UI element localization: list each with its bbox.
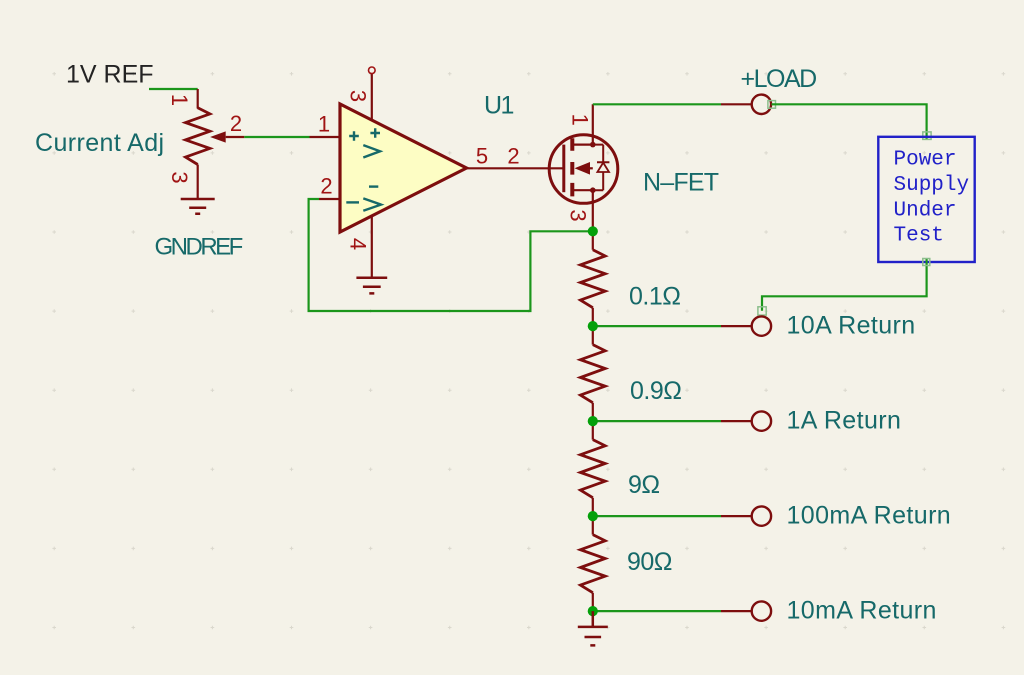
resistor R3 9Ω leads bbox=[592, 421, 594, 516]
FET substrate arrow bbox=[575, 162, 591, 175]
svg-text:Current Adj: Current Adj bbox=[35, 129, 164, 157]
svg-text:U1: U1 bbox=[484, 91, 514, 119]
potentiometer RV1 pin 3 lead bbox=[197, 165, 199, 199]
svg-text:GNDREF: GNDREF bbox=[155, 234, 243, 261]
FET gate bar bbox=[562, 145, 565, 193]
svg-text:Under: Under bbox=[894, 199, 957, 222]
wire tap to J2 bbox=[593, 325, 721, 327]
svg-text:Power: Power bbox=[894, 148, 957, 171]
connector J3 1A Return bbox=[721, 420, 752, 422]
wire tap to J4 bbox=[593, 515, 721, 517]
svg-text:3: 3 bbox=[565, 209, 590, 221]
ground GNDREF symbol bbox=[181, 199, 215, 214]
grid dots (decorative) bbox=[52, 72, 1005, 629]
op-amp V+ pin name (rotated) bbox=[370, 128, 380, 138]
sheet pin marker box top bbox=[923, 132, 931, 140]
potentiometer RV1 body bbox=[186, 108, 210, 165]
dangling wire marker above 10A Return bbox=[758, 307, 766, 315]
junction nodes on ladder bbox=[588, 226, 598, 236]
svg-text:Test: Test bbox=[894, 225, 944, 248]
op-amp pin 1 (non-inverting input) bbox=[310, 136, 341, 138]
connector J2 10A Return bbox=[721, 325, 752, 327]
op-amp U1 body bbox=[340, 104, 467, 232]
svg-text:5: 5 bbox=[476, 144, 488, 169]
svg-text:2: 2 bbox=[320, 174, 332, 199]
FET source connection bbox=[574, 190, 593, 231]
svg-text:2: 2 bbox=[230, 111, 242, 136]
potentiometer RV1 pin 1 lead bbox=[197, 89, 199, 109]
op-amp input - marker bbox=[346, 201, 359, 203]
ground symbol below op-amp bbox=[356, 278, 387, 294]
svg-text:N–FET: N–FET bbox=[643, 169, 719, 197]
svg-text:4: 4 bbox=[345, 238, 370, 250]
connector J5 10mA Return bbox=[721, 610, 752, 612]
ground at ladder bottom bbox=[578, 611, 608, 645]
connector J +LOAD pin bbox=[721, 103, 752, 105]
power supply under test box bbox=[878, 137, 974, 262]
svg-text:1: 1 bbox=[318, 112, 330, 137]
op-amp pin 4 (V-) bbox=[371, 216, 373, 277]
wire tap to J3 bbox=[593, 420, 721, 422]
resistor R2 body bbox=[580, 345, 605, 403]
op-amp pin 3 (V+) with no-connect circle bbox=[371, 74, 373, 121]
svg-text:1: 1 bbox=[567, 114, 592, 126]
wire PSU box bottom to 10A Return bbox=[762, 259, 927, 311]
resistor R1 0.1Ω leads bbox=[592, 231, 594, 326]
potentiometer RV1 wiper arrow pin 2 bbox=[210, 131, 226, 142]
svg-text:+LOAD: +LOAD bbox=[741, 65, 817, 93]
op-amp pin 2 (inverting input) bbox=[319, 198, 340, 200]
resistor R4 90Ω leads bbox=[592, 516, 594, 611]
resistor R1 body bbox=[580, 250, 605, 308]
wire 1V REF to pot pin 1 bbox=[149, 88, 198, 90]
resistor R2 0.9Ω leads bbox=[592, 326, 594, 421]
svg-text:0.9Ω: 0.9Ω bbox=[630, 377, 681, 405]
svg-text:0.1Ω: 0.1Ω bbox=[629, 283, 680, 311]
svg-text:10A Return: 10A Return bbox=[787, 312, 916, 340]
dangling wire marker at +LOAD bbox=[768, 101, 776, 109]
FET drain connection bbox=[574, 104, 593, 144]
resistor R4 body bbox=[580, 535, 605, 593]
svg-text:100mA Return: 100mA Return bbox=[787, 502, 952, 530]
svg-text:3: 3 bbox=[167, 171, 192, 183]
svg-text:10mA Return: 10mA Return bbox=[787, 597, 937, 625]
transistor Q1 N-FET body circle bbox=[549, 135, 618, 204]
op-amp pin 5 / FET gate pin line bbox=[467, 167, 564, 169]
FET body diode bbox=[593, 145, 610, 191]
connector J4 100mA Return bbox=[721, 515, 752, 517]
sheet pin marker box bottom bbox=[923, 259, 930, 266]
FET channel bars bbox=[570, 138, 574, 196]
svg-text:3: 3 bbox=[345, 90, 370, 102]
wire pot wiper to op-amp pin 1 bbox=[244, 136, 309, 138]
feedback wire op-amp pin2 to source node bbox=[309, 199, 593, 311]
op-amp V- pin name (rotated) bbox=[369, 185, 378, 187]
svg-text:1: 1 bbox=[167, 94, 192, 106]
svg-text:2: 2 bbox=[507, 144, 519, 169]
svg-text:1A Return: 1A Return bbox=[787, 407, 902, 435]
resistor R3 body bbox=[580, 440, 605, 498]
wire tap to J5 bbox=[593, 610, 721, 612]
wire +LOAD to PSU box top bbox=[772, 104, 927, 140]
svg-text:1V REF: 1V REF bbox=[66, 61, 154, 89]
wire FET drain to +LOAD connector bbox=[593, 103, 721, 105]
svg-text:90Ω: 90Ω bbox=[627, 548, 672, 576]
svg-text:Supply: Supply bbox=[894, 174, 970, 197]
svg-text:9Ω: 9Ω bbox=[628, 471, 660, 499]
op-amp input + marker bbox=[349, 131, 359, 141]
